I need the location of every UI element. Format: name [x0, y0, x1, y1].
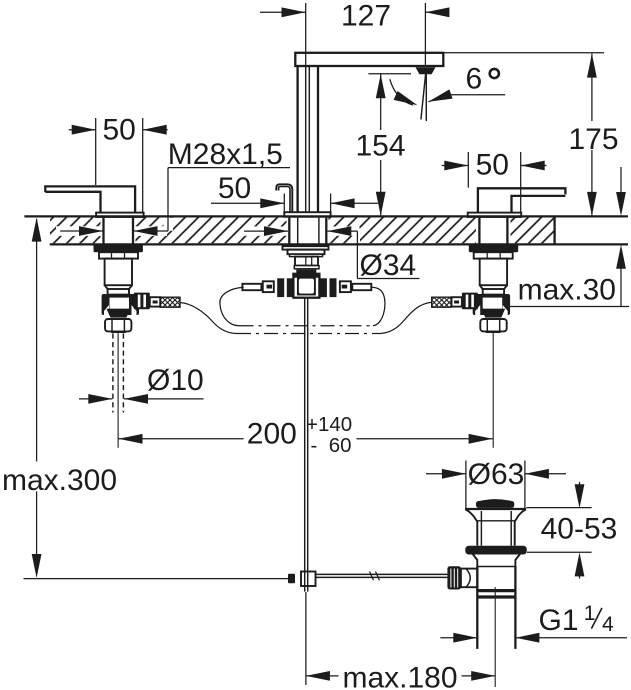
locknut	[94, 245, 143, 253]
svg-text:175: 175	[568, 123, 618, 156]
right handle base plate	[468, 213, 522, 217]
spout base plate	[284, 212, 330, 217]
dim 154 height	[355, 74, 411, 216]
right valve center line	[492, 333, 494, 448]
svg-text:50: 50	[476, 149, 509, 182]
dim 40-53	[526, 482, 617, 579]
svg-text:M28x1,5: M28x1,5	[168, 138, 283, 171]
dim 127 spout reach	[260, 0, 449, 66]
left handle base plate	[96, 213, 144, 217]
water stream lines	[421, 74, 426, 121]
outlet cone	[107, 309, 131, 318]
right valve shank in deck	[479, 218, 507, 244]
dim 175 height	[443, 53, 618, 216]
left valve center line	[117, 333, 119, 448]
center valve stack below deck	[283, 244, 329, 273]
waste upper body	[465, 509, 526, 546]
spout top bar	[295, 53, 443, 66]
right handle lever	[478, 188, 566, 212]
svg-text:50: 50	[218, 172, 251, 205]
pull rod knob on waste	[447, 566, 477, 589]
hose nut ribbed	[134, 293, 150, 310]
hose crimp sleeve	[150, 297, 160, 306]
left valve body assembly	[94, 245, 181, 333]
svg-text:- 60: - 60	[311, 434, 352, 457]
countertop deck with hatch	[24, 216, 628, 244]
dim 50 left handle	[69, 113, 168, 212]
spout column	[298, 66, 318, 212]
deck hole right	[476, 217, 511, 243]
hose loop lower dash-dot	[180, 302, 432, 333]
valve body	[105, 259, 132, 286]
pull rod below deck	[305, 298, 308, 592]
left supply pipes dashed	[113, 333, 124, 412]
dim diameter 10	[79, 364, 204, 404]
hose loop upper dash-dot	[220, 287, 385, 326]
angle 6 degrees	[390, 63, 505, 110]
svg-text:50: 50	[103, 113, 136, 146]
max.300 bottom reference line	[24, 578, 289, 580]
svg-text:200: 200	[247, 417, 297, 450]
dim max.30 countertop thickness	[510, 167, 629, 307]
dim 50 center plate	[211, 172, 378, 212]
svg-text:1: 1	[584, 602, 596, 625]
bottom collar	[111, 331, 126, 333]
white halos for arrows in deck	[56, 226, 102, 236]
deck right edge	[553, 216, 555, 244]
horizontal pop-up rod	[316, 572, 448, 581]
hex nut	[99, 252, 138, 258]
svg-text:4: 4	[602, 613, 614, 636]
waste plug cap	[476, 499, 514, 508]
pull rod clevis	[288, 572, 316, 587]
center shank in deck	[289, 218, 326, 244]
svg-text:40-53: 40-53	[541, 513, 618, 546]
dim diameter 34	[244, 226, 419, 282]
svg-text:127: 127	[341, 0, 391, 32]
deck hole center	[287, 217, 329, 243]
svg-text:Ø10: Ø10	[147, 364, 204, 397]
dim 200 +140 -60 hole spacing	[119, 413, 493, 457]
braided hose section	[160, 297, 180, 307]
pull rod knob above deck	[276, 184, 292, 213]
right valve body assembly (mirror)	[432, 245, 519, 333]
tee left hex fitting	[263, 278, 294, 297]
deck top line	[24, 215, 628, 217]
svg-text:Ø63: Ø63	[468, 458, 525, 491]
svg-text:154: 154	[355, 130, 405, 163]
center tee body	[293, 274, 319, 298]
waste lower body	[472, 554, 520, 649]
lower hex nut	[105, 319, 131, 331]
svg-text:+140: +140	[306, 413, 352, 436]
svg-text:max.30: max.30	[518, 274, 616, 307]
waste center axis line	[494, 587, 496, 687]
left valve shank in deck	[104, 218, 134, 244]
dim max.300 depth	[2, 218, 117, 578]
tee right tube	[352, 284, 371, 290]
svg-text:G1: G1	[539, 604, 579, 637]
thread label M28x1,5	[60, 138, 290, 236]
svg-text:Ø34: Ø34	[360, 249, 417, 282]
waste thread collars	[477, 591, 515, 597]
tee right hex fitting	[320, 278, 351, 297]
svg-text:max.300: max.300	[2, 464, 117, 497]
deck bottom line	[50, 243, 628, 245]
dim diameter 63	[426, 458, 566, 509]
thread label G1 1/4	[440, 602, 627, 643]
left handle lever	[45, 186, 135, 212]
svg-text:max.180: max.180	[342, 661, 457, 690]
deck hole left	[101, 217, 136, 243]
tee left tube	[242, 284, 261, 290]
dim 50 right handle	[442, 149, 547, 213]
aerator	[416, 67, 436, 74]
waste flange	[465, 546, 527, 555]
svg-text:6: 6	[466, 63, 483, 96]
elbow block	[102, 294, 139, 315]
dim max.180	[306, 592, 495, 690]
